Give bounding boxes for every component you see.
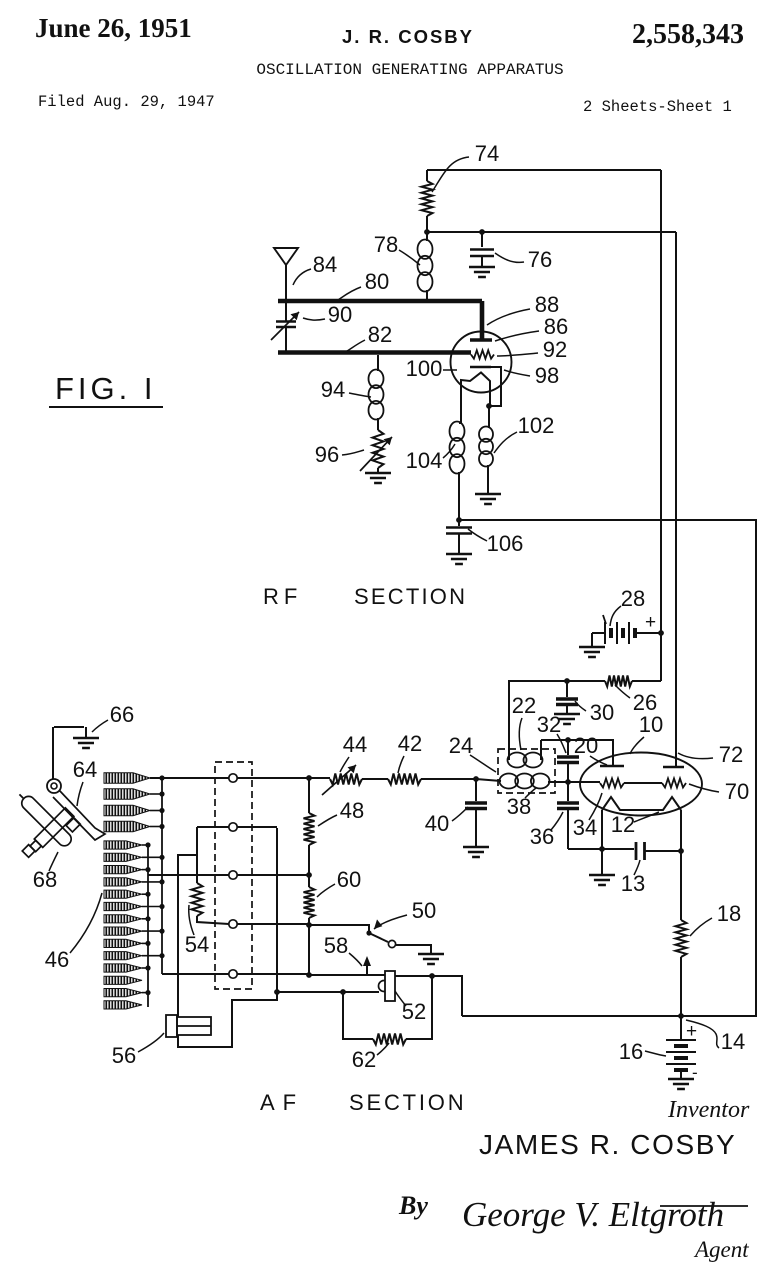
svg-text:96: 96: [315, 442, 339, 467]
svg-text:90: 90: [328, 302, 352, 327]
battery 28: [592, 632, 605, 634]
terminal T5: [229, 970, 237, 978]
tube V2 left plate: [600, 765, 624, 768]
tube V2 cathodes 12: [602, 797, 681, 810]
wire T4 right: [237, 923, 309, 925]
junction: [429, 973, 435, 979]
tube V1 plate lead (thick): [480, 301, 485, 339]
tube V1 cathode 98: [470, 366, 491, 369]
junction: [486, 403, 492, 409]
ground for switch: [396, 945, 431, 953]
wire primary to plate 20: [541, 740, 613, 766]
wire battery to R26: [660, 633, 662, 681]
svg-text:46: 46: [45, 947, 69, 972]
figure title FIG. 1: [49, 371, 163, 407]
inductor L78: [418, 240, 433, 259]
svg-text:J. R. COSBY: J. R. COSBY: [342, 26, 474, 47]
variable resistor 44: [309, 777, 330, 779]
wire switch feed: [309, 925, 369, 931]
capacitor C13: [636, 842, 645, 860]
wire T1 left: [150, 777, 229, 779]
reed bus 2: [147, 845, 149, 1007]
svg-text:54: 54: [185, 932, 209, 957]
inductor L94: [377, 355, 379, 371]
switch arm 50: [366, 930, 371, 935]
svg-text:38: 38: [507, 794, 531, 819]
svg-text:12: 12: [611, 812, 635, 837]
svg-text:104: 104: [406, 448, 443, 473]
transformer secondary L38: [500, 774, 519, 789]
resistor R60: [308, 875, 310, 887]
svg-text:100: 100: [406, 356, 443, 381]
wire B+ top rail: [427, 169, 661, 171]
junction: [473, 776, 479, 782]
jack 52: [379, 981, 390, 992]
svg-text:44: 44: [343, 732, 367, 757]
svg-text:13: 13: [621, 871, 645, 896]
svg-text:70: 70: [725, 779, 749, 804]
svg-text:86: 86: [544, 314, 568, 339]
terminal T4: [229, 920, 237, 928]
wire T5 right: [237, 973, 309, 975]
wire cathode ground rail: [568, 848, 634, 850]
svg-text:Agent: Agent: [693, 1237, 749, 1262]
junction: [306, 872, 312, 878]
svg-text:20: 20: [574, 733, 598, 758]
svg-text:Filed Aug. 29, 1947: Filed Aug. 29, 1947: [38, 93, 215, 111]
capacitor C32: [567, 740, 569, 755]
svg-text:28: 28: [621, 586, 645, 611]
junction: [678, 1013, 684, 1019]
bus bar 80 (thick): [278, 299, 482, 304]
junction: [424, 229, 430, 235]
svg-text:-: -: [692, 1063, 698, 1082]
wire T2 branch down: [178, 828, 277, 1047]
resistor R62 loop: [343, 992, 373, 1039]
coupling unit 56: [166, 1015, 177, 1037]
svg-text:2 Sheets-Sheet 1: 2 Sheets-Sheet 1: [583, 98, 732, 116]
variable resistor 96: [373, 430, 384, 468]
resistor R74: [422, 181, 433, 216]
resistor R42: [362, 778, 388, 780]
svg-text:40: 40: [425, 811, 449, 836]
junction: [564, 678, 570, 684]
wire T3 right: [237, 874, 309, 876]
wire cathode return: [459, 520, 756, 1017]
battery 16: [680, 1016, 682, 1039]
resistor R18: [676, 920, 687, 957]
svg-text:OSCILLATION GENERATING APPARAT: OSCILLATION GENERATING APPARATUS: [256, 61, 563, 79]
capacitor C30: [566, 681, 568, 697]
svg-text:June 26, 1951: June 26, 1951: [35, 13, 192, 43]
antenna 84: [274, 248, 298, 265]
wire jack to rail: [395, 976, 462, 1016]
reed comb 46: [104, 773, 150, 783]
junction: [340, 989, 346, 995]
svg-text:50: 50: [412, 898, 436, 923]
svg-text:68: 68: [33, 867, 57, 892]
svg-text:80: 80: [365, 269, 389, 294]
svg-text:64: 64: [73, 757, 97, 782]
svg-text:32: 32: [537, 712, 561, 737]
svg-text:+: +: [645, 612, 656, 633]
svg-text:RF: RF: [263, 584, 302, 609]
svg-text:82: 82: [368, 322, 392, 347]
tube V1 plate 86: [470, 338, 492, 341]
ground 66: [54, 726, 84, 728]
svg-text:72: 72: [719, 742, 743, 767]
junction: [658, 630, 664, 636]
inductor L102: [488, 406, 490, 428]
svg-text:48: 48: [340, 798, 364, 823]
svg-text:78: 78: [374, 232, 398, 257]
svg-text:106: 106: [487, 531, 524, 556]
terminal T2: [229, 823, 237, 831]
svg-text:JAMES R. COSBY: JAMES R. COSBY: [479, 1129, 736, 1160]
tube V1 grid 92: [471, 350, 494, 358]
wire bus to 56 top: [178, 855, 197, 1017]
svg-text:92: 92: [543, 337, 567, 362]
svg-text:56: 56: [112, 1043, 136, 1068]
tube V1 filament 100: [461, 373, 490, 424]
resistor R54: [196, 827, 198, 883]
transformer box (dashed) 24: [498, 749, 555, 793]
svg-text:102: 102: [518, 413, 555, 438]
svg-text:16: 16: [619, 1039, 643, 1064]
wire contact rail: [309, 974, 385, 976]
terminal box (dashed): [215, 762, 252, 989]
svg-text:58: 58: [324, 933, 348, 958]
capacitor C36: [567, 782, 569, 801]
svg-text:30: 30: [590, 700, 614, 725]
wire to R18: [680, 851, 682, 920]
contact 58 arrow: [366, 960, 368, 975]
svg-text:36: 36: [530, 824, 554, 849]
terminal T1: [229, 774, 237, 782]
wire T2 right: [237, 826, 277, 828]
crystal driver 68: [0, 778, 85, 871]
svg-text:52: 52: [402, 999, 426, 1024]
wire AF bottom rail: [462, 1015, 756, 1017]
svg-text:66: 66: [110, 702, 134, 727]
svg-text:42: 42: [398, 731, 422, 756]
svg-text:76: 76: [528, 247, 552, 272]
wire C to jack: [277, 991, 379, 993]
svg-text:2,558,343: 2,558,343: [632, 19, 744, 50]
variable capacitor 90: [285, 301, 287, 321]
junction: [274, 989, 280, 995]
wire T2 left: [197, 826, 229, 828]
wire plate rail y232: [427, 231, 676, 233]
svg-text:14: 14: [721, 1029, 745, 1054]
svg-text:94: 94: [321, 377, 345, 402]
svg-text:George V. Eltgroth: George V. Eltgroth: [462, 1195, 724, 1234]
svg-text:SECTION: SECTION: [354, 584, 467, 609]
wire pivot: [52, 727, 54, 779]
junction: [306, 922, 312, 928]
ground for battery 28: [591, 633, 593, 646]
svg-text:60: 60: [337, 867, 361, 892]
svg-text:FIG. I: FIG. I: [55, 371, 157, 406]
inductor L104: [459, 422, 461, 424]
junction: [306, 775, 312, 781]
capacitor C76: [481, 232, 483, 247]
wire to secondary: [476, 779, 501, 781]
tube V2 grids 34/70: [600, 779, 624, 788]
wire B+ to primary: [509, 681, 567, 753]
ground cathode left: [601, 849, 603, 874]
tube V2 envelope: [580, 753, 702, 816]
capacitor C40: [475, 779, 477, 801]
svg-text:98: 98: [535, 363, 559, 388]
capacitor C106: [458, 520, 460, 526]
junction: [306, 972, 312, 978]
svg-text:Inventor: Inventor: [667, 1097, 750, 1123]
resistor R48: [308, 778, 310, 813]
svg-text:+: +: [686, 1021, 697, 1042]
wire AF signal rail: [237, 777, 309, 779]
bus bar 82 (thick): [278, 350, 471, 355]
wire B+ right vertical: [660, 170, 662, 633]
wire grid rail: [548, 781, 600, 783]
tube V1 envelope: [451, 332, 512, 393]
svg-text:74: 74: [475, 141, 499, 166]
svg-text:62: 62: [352, 1047, 376, 1072]
junction: [565, 779, 571, 785]
wire T3 left: [148, 874, 229, 876]
junction: [479, 229, 485, 235]
wire T5 left: [162, 973, 229, 975]
svg-text:22: 22: [512, 693, 536, 718]
svg-text:By: By: [398, 1191, 428, 1220]
svg-text:34: 34: [573, 815, 597, 840]
svg-text:18: 18: [717, 901, 741, 926]
armature pivot: [47, 779, 61, 793]
terminal T3: [229, 871, 237, 879]
wire V2 plate vertical: [675, 232, 677, 766]
junction: [565, 737, 571, 743]
transformer primary L22: [508, 753, 527, 768]
svg-text:84: 84: [313, 252, 337, 277]
svg-text:SECTION: SECTION: [349, 1090, 466, 1115]
resistor R26: [605, 676, 632, 687]
tube V2 right plate 72: [663, 766, 684, 769]
svg-text:AF: AF: [260, 1090, 304, 1115]
svg-text:10: 10: [639, 712, 663, 737]
junction: [678, 848, 684, 854]
svg-text:24: 24: [449, 733, 473, 758]
wire 60 to contact rail: [308, 925, 310, 975]
junction: [456, 517, 462, 523]
reed bus 1: [161, 777, 163, 974]
junction: [599, 846, 605, 852]
armature lever 64: [53, 790, 105, 840]
